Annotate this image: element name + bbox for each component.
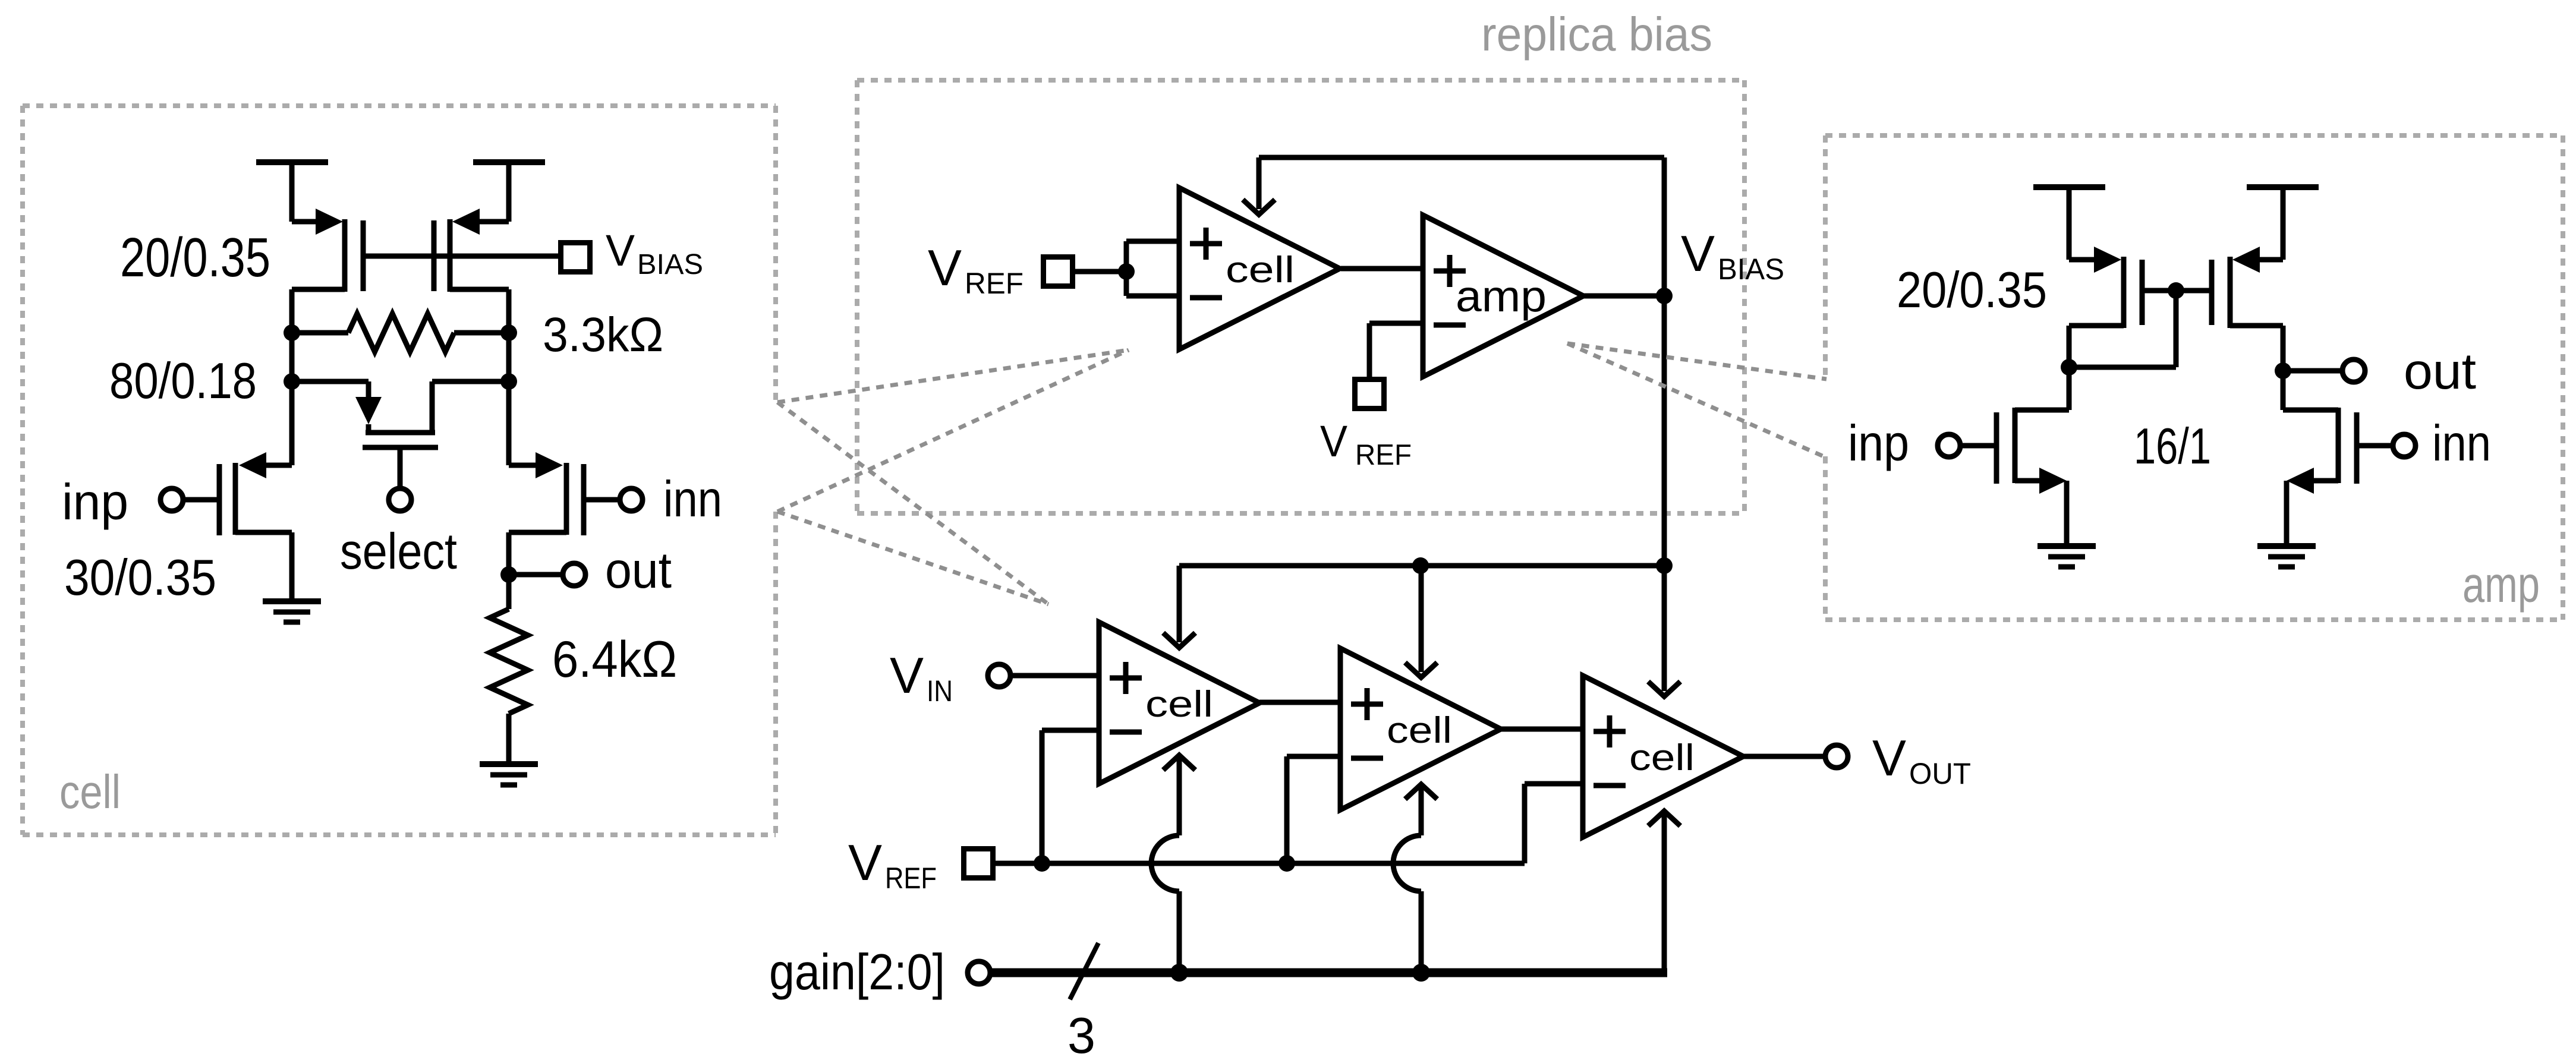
svg-text:BIAS: BIAS	[637, 249, 703, 280]
svg-text:IN: IN	[927, 674, 953, 708]
svg-text:V: V	[890, 648, 924, 704]
svg-text:gain[2:0]: gain[2:0]	[769, 944, 945, 1001]
svg-text:cell: cell	[1629, 737, 1695, 778]
svg-text:inp: inp	[1848, 415, 1909, 472]
svg-text:REF: REF	[1355, 439, 1412, 471]
svg-text:V: V	[928, 240, 962, 296]
svg-text:20/0.35: 20/0.35	[1897, 262, 2047, 318]
svg-text:80/0.18: 80/0.18	[109, 353, 257, 409]
svg-text:cell: cell	[1145, 684, 1213, 725]
svg-text:BIAS: BIAS	[1718, 253, 1784, 286]
svg-text:3: 3	[1067, 1008, 1095, 1063]
svg-text:V: V	[1320, 417, 1348, 466]
svg-text:6.4kΩ: 6.4kΩ	[552, 631, 677, 688]
svg-text:V: V	[606, 226, 635, 275]
svg-text:cell: cell	[1226, 250, 1295, 291]
svg-text:20/0.35: 20/0.35	[120, 226, 270, 288]
svg-text:out: out	[605, 542, 672, 599]
svg-text:30/0.35: 30/0.35	[64, 550, 216, 606]
svg-text:out: out	[2404, 343, 2476, 400]
svg-text:REF: REF	[965, 267, 1024, 300]
svg-text:3.3kΩ: 3.3kΩ	[543, 308, 663, 362]
svg-text:V: V	[848, 835, 882, 891]
svg-text:select: select	[340, 523, 457, 580]
svg-text:REF: REF	[885, 862, 937, 895]
svg-text:inn: inn	[663, 471, 722, 528]
svg-text:inn: inn	[2432, 415, 2491, 472]
svg-text:cell: cell	[1387, 710, 1452, 751]
svg-text:V: V	[1872, 730, 1906, 787]
svg-text:inp: inp	[62, 474, 128, 531]
svg-text:V: V	[1681, 226, 1715, 282]
svg-text:amp: amp	[1456, 272, 1547, 321]
svg-text:amp: amp	[2462, 557, 2540, 613]
svg-text:replica bias: replica bias	[1481, 8, 1712, 61]
svg-text:cell: cell	[59, 765, 121, 818]
svg-text:OUT: OUT	[1909, 757, 1971, 790]
svg-text:16/1: 16/1	[2134, 418, 2211, 475]
